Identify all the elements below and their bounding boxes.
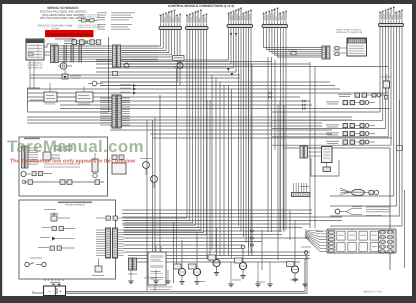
fuse and relay panel [327, 229, 396, 253]
gauge circle right of X2 [124, 63, 129, 68]
horizontal bus wires lower [122, 210, 342, 262]
svg-text:TM800 (21-17-05): TM800 (21-17-05) [362, 291, 381, 294]
horn circle component [174, 63, 183, 69]
engine sender row 3 [38, 246, 75, 250]
connector J1 label [169, 11, 172, 14]
bottom tiny labels row [128, 231, 323, 282]
svg-text:ENGINE HARNESS: ENGINE HARNESS [65, 204, 85, 207]
right hand console connector box [347, 38, 367, 56]
key switch area drop wires [30, 60, 34, 88]
connector J2 label [195, 11, 198, 14]
main horizontal bus wires upper [27, 62, 390, 109]
small connector stack lower-center [129, 258, 137, 270]
inline connector ticks on bundle [64, 45, 82, 63]
wire bundle from J2 descending [124, 30, 207, 235]
diode block right [381, 74, 391, 99]
harness split symbol upper [340, 188, 379, 196]
sensor small circle a [238, 241, 248, 254]
wires joining relay boxes [30, 97, 76, 100]
scan border top band [0, 0, 416, 4]
wires right of connector X2 [121, 46, 158, 61]
small connector block center-right [292, 183, 311, 197]
wire stub from key switch [44, 44, 58, 55]
box2 multi-pin stack [96, 228, 124, 258]
connector J4 (control module) [262, 8, 288, 28]
box1 plug row a [32, 172, 52, 176]
fuel pump solenoid [174, 264, 186, 284]
svg-text:TareManual.com: TareManual.com [7, 137, 144, 156]
printable version red banner [45, 30, 94, 37]
connector J3 (control module) [227, 8, 253, 28]
mini plug with label mid top-right [288, 49, 297, 55]
connector J3 label [238, 9, 241, 12]
starter solenoid [287, 262, 299, 282]
dome light connector row [326, 132, 375, 136]
key switch box label [28, 62, 43, 70]
wire bundle from J5 nested turns [272, 27, 402, 227]
connector J5 label [389, 8, 392, 11]
wire bundle from J4 [264, 28, 323, 231]
connector J5 (right console) [379, 7, 404, 27]
svg-text:Printable Version Click Here: Printable Version Click Here [46, 32, 91, 36]
connector pair X1 tall [51, 46, 59, 63]
red watermark notice line [10, 159, 136, 165]
svg-text:RIGHT HAND CONSOLE: RIGHT HAND CONSOLE [337, 29, 362, 32]
ground symbols bottom row [128, 270, 170, 284]
scan border left band [0, 0, 2, 303]
right hand console harness label [336, 29, 363, 35]
wire battery to ground bus [33, 291, 44, 293]
aux light connector row [326, 140, 375, 144]
title block printed date [38, 25, 72, 31]
engine sender row 1 [42, 227, 75, 231]
fuse panel feed wire fan [305, 230, 327, 251]
main horizontal bus wires middle [27, 117, 392, 148]
box2 plug row above stack [96, 216, 123, 220]
harness split symbol lower [335, 206, 390, 216]
legend connector icon [77, 14, 101, 30]
oil pressure switch symbol [25, 258, 46, 267]
risers to bottom components [182, 210, 295, 270]
glow plug relay coil [189, 264, 201, 284]
box1 relay [43, 152, 60, 160]
flasher relay enclosure [300, 146, 339, 176]
connector J1 (control module) [159, 10, 182, 30]
relay circles center-left [140, 158, 157, 188]
inline plug pair top row [64, 40, 96, 45]
flood light connector row [326, 101, 375, 105]
document number bottom right [362, 291, 381, 294]
svg-text:The TareManual link only appea: The TareManual link only appears in this… [10, 159, 136, 165]
small circle component mid [88, 81, 103, 86]
connector J2 (control module) [186, 10, 209, 30]
connector pair feeding RH console [322, 46, 347, 59]
central vertical trunk wires [147, 57, 315, 291]
connector pair X2 tall mid [113, 45, 121, 67]
sensor small circle b [301, 247, 311, 261]
wire bundle from J3 descending [96, 28, 251, 254]
svg-text:CONTROL MODULE CONNECTIONS (1: CONTROL MODULE CONNECTIONS (1 of 2) [168, 4, 234, 8]
starter relay logic box [148, 246, 172, 290]
work light connector row 1 [338, 93, 387, 97]
fuel shutoff solenoid [44, 209, 70, 222]
horn label box [173, 56, 185, 61]
wire bundle from J1 turning left [100, 30, 180, 86]
box1 inner small parts [44, 146, 80, 167]
inline connector ticks on right buses [250, 92, 306, 246]
box2 glow plug parts [92, 258, 104, 276]
left wire loop rectangle [28, 37, 109, 112]
relay box A [44, 83, 57, 104]
splice with arrow under hour meter [62, 69, 81, 79]
small plug under X2 [111, 72, 119, 79]
extra ground symbols bottom [228, 262, 307, 287]
vertical wires center-left risers [153, 68, 211, 283]
box1 bottom wire row [22, 180, 104, 185]
arrow splice symbols mid-left [120, 84, 137, 95]
scan border right band [412, 0, 416, 303]
box1 solenoid vertical [92, 153, 98, 178]
key switch module box [26, 39, 44, 60]
aux connector box right of box1 [112, 155, 126, 174]
box1 gauge circle a [21, 171, 31, 176]
scan border bottom band [0, 296, 416, 303]
title block WIRING SCHEMATIC [40, 6, 87, 20]
starter relay coil [208, 255, 220, 275]
green watermark TareManual.com [7, 137, 144, 156]
legend note text block [97, 12, 135, 29]
sheet title CONTROL MODULE CONNECTIONS [168, 4, 234, 8]
right margin vertical wire [397, 100, 405, 268]
beacon connector row [326, 124, 375, 128]
left console wire bundle rows [58, 46, 113, 61]
plug pair on top row right [90, 40, 101, 45]
battery box [44, 280, 66, 296]
alternator exciter [235, 258, 247, 278]
harness box 2 outline (engine harness) [19, 200, 116, 279]
box1 connector stack [22, 146, 39, 168]
engine sender row 2 arrow [40, 237, 75, 241]
splice arrows under connector J3 [230, 33, 238, 36]
hour meter gauge circle [58, 63, 72, 69]
ground bus wire bottom [66, 148, 391, 293]
splice arrows on J3 drop wires [227, 68, 233, 76]
svg-text:HARNESS (TO MONITOR): HARNESS (TO MONITOR) [336, 31, 363, 34]
mid multi-pin connector stack [100, 95, 130, 128]
connector J4 label [273, 9, 276, 12]
note under red banner [55, 38, 75, 39]
harness box 1 outline [19, 137, 108, 196]
relay box B [76, 86, 93, 104]
